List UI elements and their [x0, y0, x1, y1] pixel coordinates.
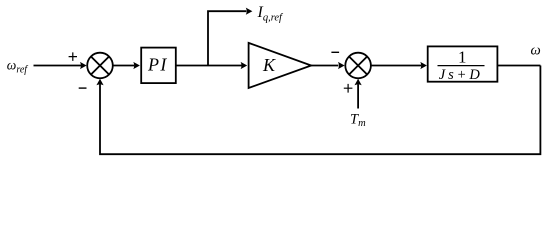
arrowhead Tm into S2: [355, 79, 362, 86]
arrowhead into PI block: [133, 62, 140, 69]
minus sign at S2 input: [331, 51, 339, 53]
arrowhead into summing junction S1: [80, 62, 87, 69]
arrowhead into S2: [338, 62, 345, 69]
svg-text:PI: PI: [147, 54, 168, 74]
summing junction S2 (circle with X): [345, 53, 371, 79]
block plant 1/(Js+D): [428, 46, 498, 81]
minus sign at feedback input of S1: [79, 87, 87, 89]
svg-text:Iq,ref: Iq,ref: [257, 4, 285, 23]
block PI: [141, 48, 176, 84]
wire PI to gain K: [176, 65, 242, 67]
node omega output label: [531, 43, 541, 59]
svg-text:ωref: ωref: [7, 57, 29, 75]
node Tm label: [350, 111, 366, 129]
wire feedback loop: [100, 66, 540, 155]
wire K to summing junction S2: [311, 65, 338, 67]
wire input omega_ref to summing junction S1: [34, 65, 82, 67]
svg-text:ω: ω: [531, 43, 541, 59]
plus sign at Tm input of S2: [344, 84, 353, 93]
wire plant output to corner: [497, 65, 540, 67]
gain block K (triangle): [249, 43, 312, 88]
wire S2 to plant block: [371, 65, 421, 67]
svg-text:1: 1: [458, 47, 467, 66]
wire Tm up into S2: [357, 84, 359, 108]
wire S1 to PI block: [113, 65, 135, 67]
node omega_ref input label: [7, 57, 29, 75]
plus sign at summing junction S1 input: [69, 52, 77, 61]
arrowhead into plant block: [420, 62, 427, 69]
summing junction S1 (circle with X): [87, 53, 113, 79]
svg-text:Tm: Tm: [350, 111, 366, 129]
fraction bar: [438, 65, 485, 67]
arrowhead into gain K: [241, 62, 248, 69]
arrowhead feedback into S1: [96, 79, 103, 86]
node Iq,ref label: [257, 4, 285, 23]
wire branch up to Iq,ref: [208, 11, 246, 65]
svg-text:J s + D: J s + D: [439, 67, 481, 83]
svg-text:K: K: [262, 55, 276, 75]
arrowhead to Iq,ref: [246, 8, 253, 15]
